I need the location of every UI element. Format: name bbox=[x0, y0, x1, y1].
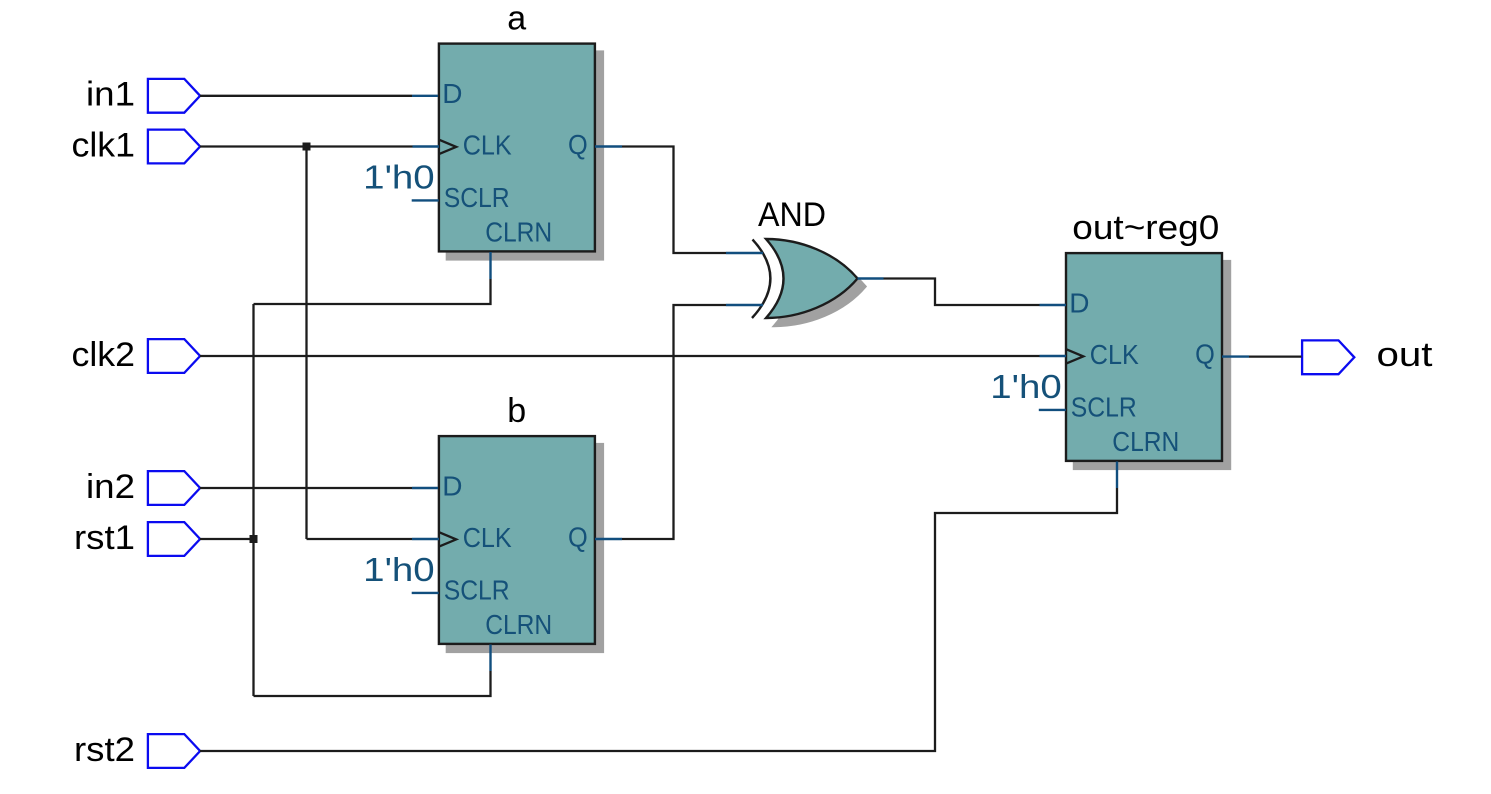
pin stub b.CLRN bbox=[489, 645, 491, 672]
wire rst2 to out_reg0.CLRN bbox=[200, 488, 1117, 751]
junction on clk1 net bbox=[303, 143, 311, 151]
pin stub b.CLK bbox=[412, 538, 439, 540]
input port clk1 bbox=[148, 130, 200, 164]
wire out_reg0.Q to out port bbox=[1249, 355, 1302, 357]
junction on rst1 net bbox=[250, 535, 258, 543]
clock marker of b bbox=[439, 532, 457, 547]
svg-text:1'h0: 1'h0 bbox=[990, 368, 1062, 405]
pin stub a.Q bbox=[595, 145, 622, 147]
wire b.Q to AND input 2 bbox=[622, 305, 726, 539]
input port rst2 bbox=[148, 734, 200, 768]
svg-text:SCLR: SCLR bbox=[444, 574, 510, 605]
wire clk1 to a.CLK bbox=[200, 145, 413, 147]
wire rst1 to junction bbox=[200, 538, 254, 540]
flip-flop out_reg0 (DFF) bbox=[1066, 253, 1231, 470]
wire clk2 to out_reg0.CLK bbox=[200, 355, 1040, 357]
wire clk1 branch to b.CLK bbox=[307, 538, 413, 540]
pin stub out_reg0.CLK bbox=[1040, 355, 1067, 357]
flip-flop a (DFF) bbox=[439, 44, 604, 261]
wire AND output to out_reg0.D bbox=[884, 279, 1040, 306]
svg-text:clk2: clk2 bbox=[72, 336, 136, 374]
pin stub SCLR of a bbox=[412, 199, 439, 201]
wire in2 to b.D bbox=[200, 487, 412, 489]
wire rst1 lower branch to b.CLRN bbox=[254, 671, 491, 696]
svg-text:D: D bbox=[442, 78, 462, 109]
svg-text:D: D bbox=[442, 470, 462, 501]
input port in1 bbox=[148, 79, 200, 113]
pin stub AND input 2 bbox=[726, 304, 763, 306]
svg-text:CLRN: CLRN bbox=[485, 609, 552, 640]
wire rst1 upper branch to a.CLRN bbox=[254, 279, 491, 304]
svg-text:CLRN: CLRN bbox=[485, 216, 552, 247]
wire rst1 vertical bbox=[252, 304, 254, 696]
svg-text:CLK: CLK bbox=[463, 522, 512, 553]
svg-text:CLK: CLK bbox=[463, 129, 512, 160]
svg-text:AND: AND bbox=[758, 196, 826, 234]
svg-text:in1: in1 bbox=[86, 76, 135, 114]
svg-text:clk1: clk1 bbox=[72, 127, 136, 165]
flip-flop b (DFF) bbox=[439, 436, 604, 653]
input port in2 bbox=[148, 471, 200, 505]
svg-text:1'h0: 1'h0 bbox=[363, 158, 435, 195]
input port clk2 bbox=[148, 339, 200, 373]
wire clk1 vertical branch bbox=[305, 147, 307, 540]
pin stub AND output bbox=[858, 277, 884, 279]
svg-text:CLK: CLK bbox=[1090, 339, 1139, 370]
clock marker of a bbox=[439, 140, 457, 155]
pin stub b.Q bbox=[595, 538, 622, 540]
svg-text:rst1: rst1 bbox=[74, 519, 135, 557]
AND gate U1 body bbox=[766, 239, 858, 318]
pin stub a.CLRN bbox=[489, 252, 491, 279]
svg-text:a: a bbox=[507, 0, 526, 37]
pin stub SCLR of out_reg0 bbox=[1039, 409, 1066, 411]
svg-text:Q: Q bbox=[568, 521, 588, 552]
svg-text:D: D bbox=[1069, 287, 1089, 318]
svg-text:rst2: rst2 bbox=[74, 731, 135, 769]
svg-text:in2: in2 bbox=[86, 468, 135, 506]
svg-text:b: b bbox=[507, 392, 526, 430]
wire a.Q to AND input 1 bbox=[622, 147, 726, 254]
svg-text:1'h0: 1'h0 bbox=[363, 551, 435, 588]
pin stub a.D bbox=[412, 95, 438, 97]
pin stub out_reg0.Q bbox=[1222, 355, 1249, 357]
svg-text:SCLR: SCLR bbox=[1071, 391, 1137, 422]
svg-text:out: out bbox=[1377, 336, 1434, 374]
wire in1 to a.D bbox=[200, 95, 412, 97]
svg-text:Q: Q bbox=[568, 129, 588, 160]
pin stub AND input 1 bbox=[726, 252, 763, 254]
pin stub a.CLK bbox=[413, 145, 440, 147]
pin stub SCLR of b bbox=[412, 592, 439, 594]
svg-text:CLRN: CLRN bbox=[1112, 426, 1179, 457]
svg-text:Q: Q bbox=[1195, 338, 1215, 369]
svg-text:out~reg0: out~reg0 bbox=[1072, 209, 1219, 247]
pin stub out_reg0.D bbox=[1040, 304, 1067, 306]
clock marker of out_reg0 bbox=[1066, 349, 1084, 364]
AND gate input arc bbox=[752, 240, 770, 319]
pin stub out_reg0.CLRN bbox=[1116, 462, 1118, 489]
pin stub b.D bbox=[412, 487, 438, 489]
input port rst1 bbox=[148, 522, 200, 556]
AND gate U1 shadow bbox=[774, 247, 866, 326]
output port out bbox=[1302, 340, 1354, 374]
svg-text:SCLR: SCLR bbox=[444, 182, 510, 213]
